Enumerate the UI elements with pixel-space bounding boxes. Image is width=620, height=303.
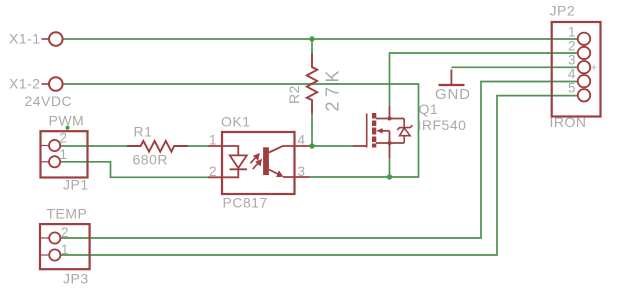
junction dot node gate/R2/OK1 pin4 (309, 143, 314, 148)
svg-text:Q1: Q1 (419, 101, 439, 117)
connector JP2 pin 2 pad (578, 47, 590, 59)
connector JP2 pin 4 pad (578, 75, 590, 87)
svg-text:1: 1 (60, 147, 68, 162)
transistor Q1 drain lead (376, 106, 404, 121)
svg-text:2: 2 (61, 225, 69, 240)
svg-text:1: 1 (61, 242, 69, 257)
OK1 LED triangle (230, 155, 247, 168)
svg-text:R1: R1 (134, 124, 153, 140)
node marker above JP1 (66, 126, 70, 130)
svg-text:X1-1: X1-1 (9, 31, 41, 47)
svg-text:680R: 680R (133, 152, 168, 168)
svg-text:4: 4 (568, 66, 576, 81)
connector JP2 box (552, 22, 601, 117)
wire JP1 pin1 to OK1 pin2 (61, 162, 208, 178)
svg-text:24VDC: 24VDC (25, 93, 73, 109)
svg-text:TEMP: TEMP (47, 206, 88, 222)
svg-text:3: 3 (568, 53, 576, 68)
Q1 body diode (zener) (397, 119, 412, 144)
wire OK1 pin4 to Q1 gate (310, 145, 354, 147)
wire JP2 pin5 to JP3 pin1 (61, 96, 578, 255)
junction dot node source/OK1 pin3/X1-2 (387, 174, 392, 179)
OK1 LED cathode lead pin2 (208, 169, 238, 177)
wire net 24VDC return X1-2 to MOSFET source (63, 84, 419, 177)
connector JP2 pin 3 pad (578, 61, 590, 73)
wire R1 to OK1 pin1 (187, 145, 208, 147)
transistor Q1 source lead (376, 141, 404, 158)
JP2 origin cross marker (592, 65, 597, 70)
svg-text:1: 1 (568, 25, 576, 40)
OK1 emitter lead pin3 (269, 170, 310, 178)
svg-text:JP3: JP3 (63, 271, 89, 287)
svg-text:IRF540: IRF540 (418, 117, 467, 133)
connector JP2 pin 5 pad (578, 89, 590, 101)
svg-text:IRON: IRON (550, 114, 587, 130)
svg-text:PC817: PC817 (223, 195, 268, 211)
transistor Q1 body arrow (376, 128, 389, 143)
resistor R1 (127, 141, 188, 152)
connector JP1 (41, 131, 88, 177)
optocoupler OK1 box (222, 132, 295, 194)
wire R2 top lead (311, 39, 313, 54)
connector JP2 pin 1 pad (578, 33, 590, 45)
connector JP3 (40, 224, 90, 269)
resistor R2 (307, 54, 317, 114)
OK1 LED cathode bar (230, 168, 247, 170)
wire GND net to JP2 pin3 (451, 66, 577, 68)
svg-text:JP2: JP2 (550, 3, 576, 19)
svg-text:2: 2 (568, 38, 576, 53)
OK1 phototransistor base bar (263, 147, 269, 175)
wire net N$24V+ top rail X1-1 to JP2 pin1 (63, 38, 578, 40)
wire drain net to JP2 pin2 (390, 53, 578, 106)
svg-text:2: 2 (60, 131, 68, 146)
transistor Q1 gate lead (353, 145, 367, 147)
svg-text:JP1: JP1 (63, 177, 89, 193)
svg-text:PWM: PWM (49, 113, 85, 129)
svg-text:27K: 27K (323, 66, 343, 112)
wire source pin to bottom net (389, 158, 391, 177)
svg-text:5: 5 (568, 81, 576, 96)
wire JP2 pin4 to JP3 pin2 (61, 82, 578, 239)
wire JP1 pin2 to R1 (61, 145, 128, 147)
junction dot node 24V+/R2 (309, 36, 314, 41)
wire R2 bottom lead (311, 114, 313, 147)
OK1 light arrow 1 (250, 153, 259, 163)
svg-text:R2: R2 (286, 85, 302, 104)
ground symbol GND (439, 70, 465, 86)
svg-text:OK1: OK1 (221, 114, 251, 130)
OK1 light arrow 2 (253, 159, 262, 169)
connector pad X1-1 (42, 32, 63, 46)
transistor Q1 gate bar (366, 114, 368, 148)
svg-text:GND: GND (435, 86, 471, 103)
connector pad X1-2 (42, 77, 63, 91)
OK1 LED anode lead pin1 (208, 146, 238, 155)
svg-text:X1-2: X1-2 (9, 76, 41, 92)
OK1 collector lead pin4 (269, 146, 310, 153)
transistor Q1 channel dashes (372, 113, 376, 148)
